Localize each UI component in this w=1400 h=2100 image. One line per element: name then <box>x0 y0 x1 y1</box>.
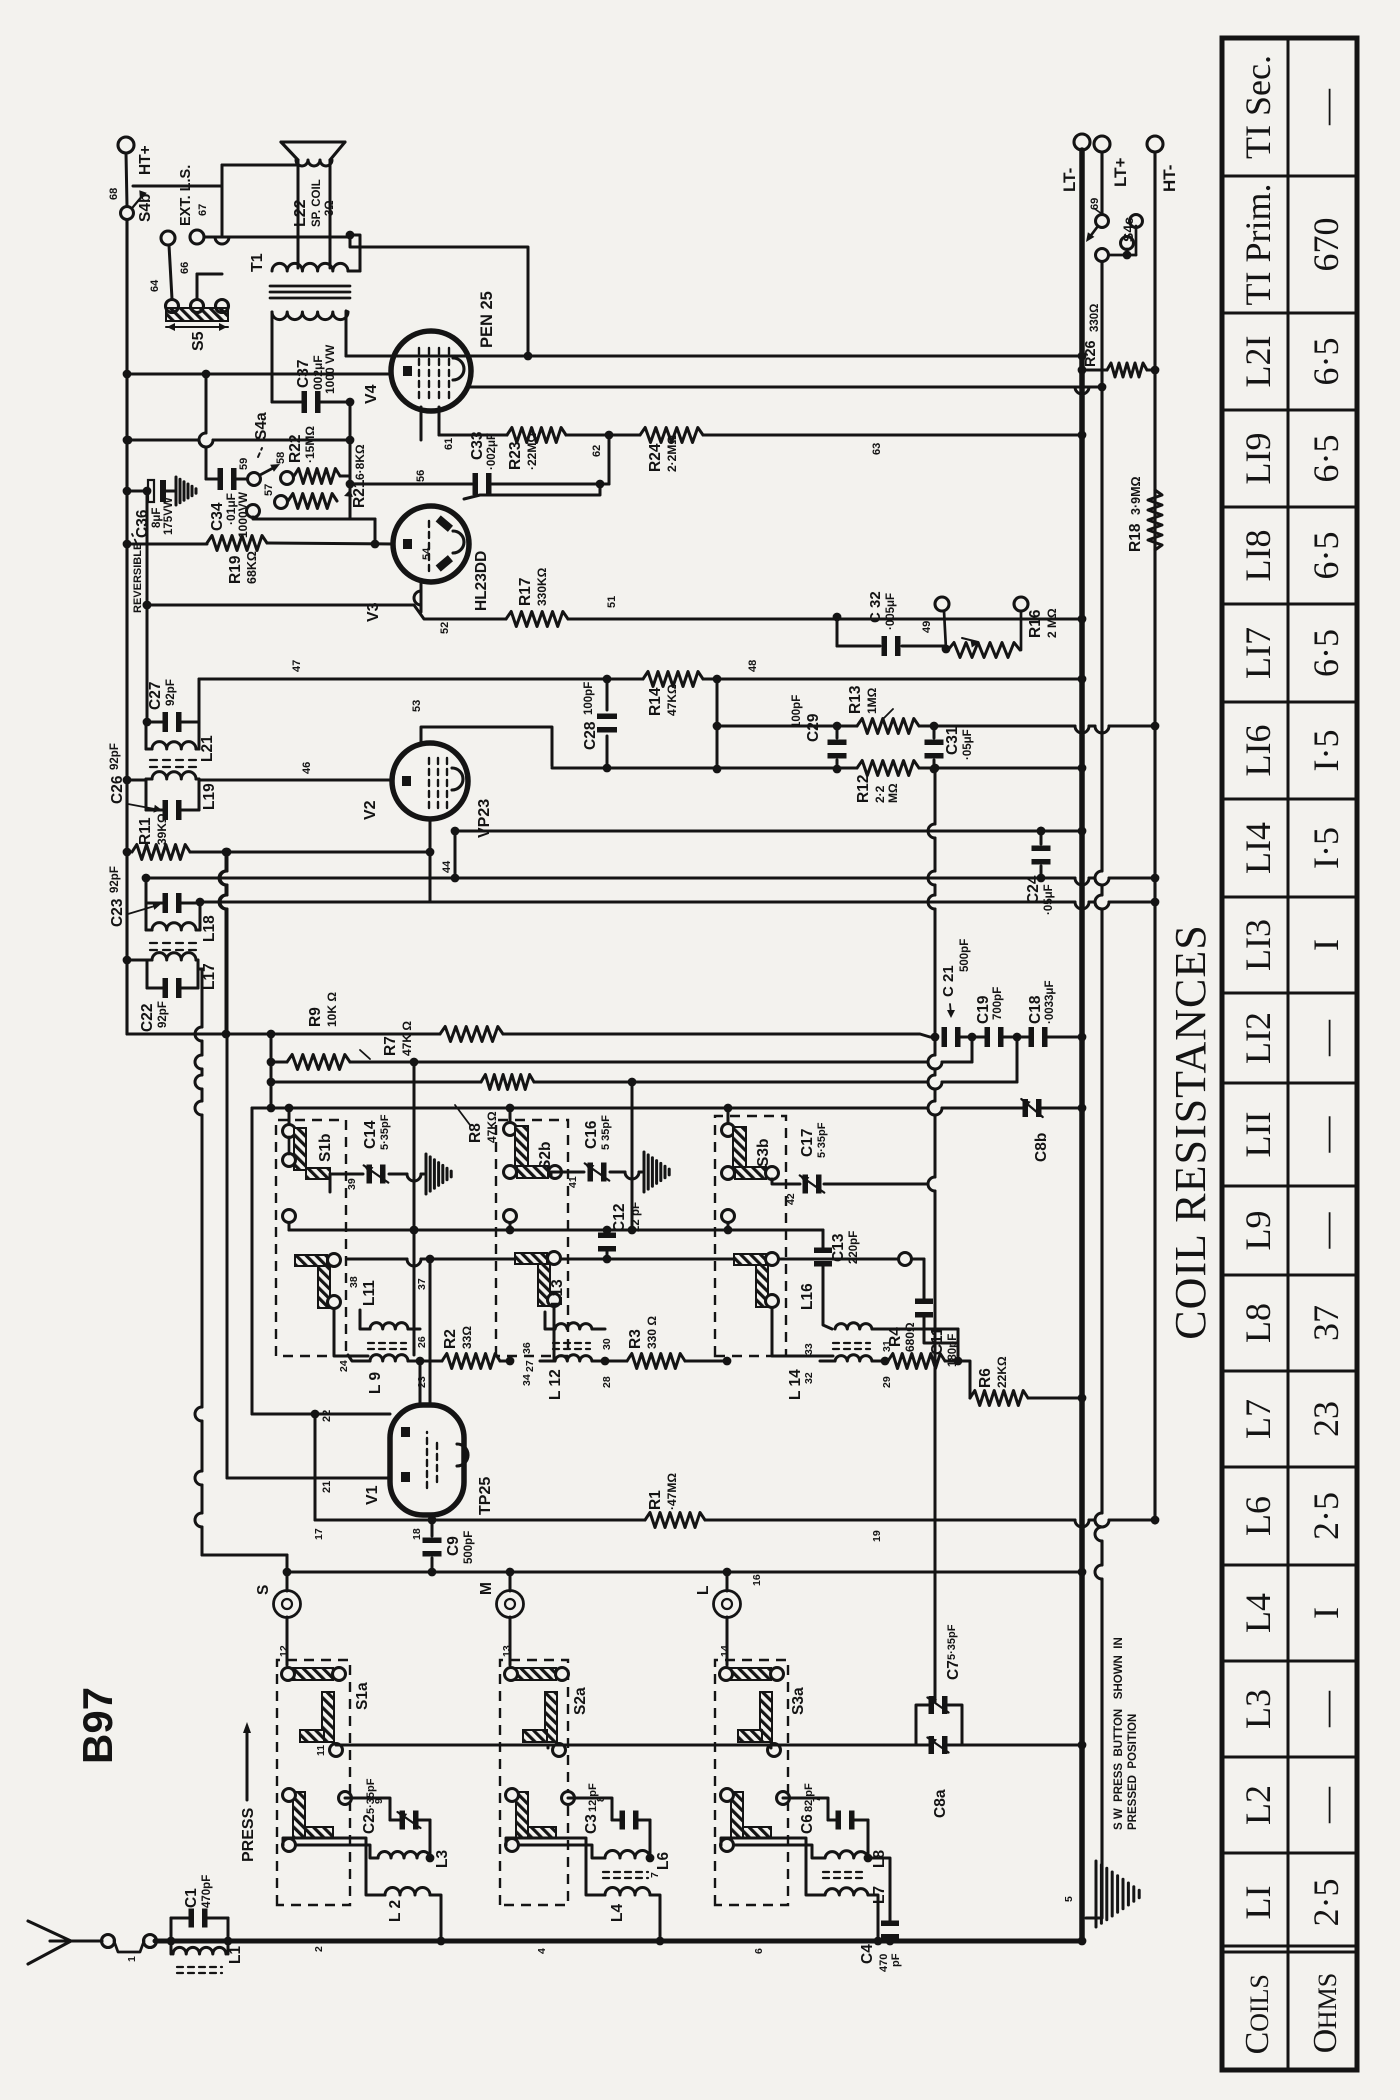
capacitor C21 500pF <box>942 1027 948 1047</box>
svg-text:L 12: L 12 <box>547 1369 564 1400</box>
svg-text:·005μF: ·005μF <box>885 593 897 630</box>
capacitor C6 82pF <box>828 1819 836 1822</box>
wire L4/L6 bottoms to rail <box>650 1895 660 1941</box>
coil L12 <box>555 1355 592 1361</box>
transformer core L4/L6 <box>603 1871 648 1873</box>
svg-text:330KΩ: 330KΩ <box>535 567 549 606</box>
wire 44-line top bar <box>145 878 148 930</box>
svg-text:C2: C2 <box>361 1814 378 1834</box>
svg-text:175VW: 175VW <box>163 497 175 535</box>
svg-text:HL23DD: HL23DD <box>473 551 490 611</box>
wire R13 row <box>717 725 857 728</box>
svg-text:C17: C17 <box>799 1129 816 1157</box>
svg-text:·002μF: ·002μF <box>486 433 498 470</box>
svg-text:3·9MΩ: 3·9MΩ <box>1129 476 1143 515</box>
svg-text:32: 32 <box>803 1372 815 1384</box>
valve V1 TP25 <box>390 1405 464 1515</box>
switch box S3b <box>715 1116 786 1356</box>
svg-text:V1: V1 <box>364 1485 381 1505</box>
svg-text:L19: L19 <box>201 783 218 810</box>
svg-text:30: 30 <box>601 1338 613 1350</box>
wire V3 diode 2 to C33 node <box>464 484 600 499</box>
svg-text:2·2MΩ: 2·2MΩ <box>665 435 679 472</box>
switch box S1b <box>276 1120 346 1356</box>
resistor R8 47Kohm <box>481 1075 534 1090</box>
wire T1 primary top to C37 <box>271 312 274 402</box>
valve V3 HL23DD <box>393 506 469 582</box>
svg-text:R3: R3 <box>627 1329 644 1349</box>
svg-text:2: 2 <box>313 1946 325 1952</box>
svg-text:10K Ω: 10K Ω <box>325 992 339 1027</box>
switch S1a contacts <box>293 1668 333 1680</box>
resistor R2 33ohm <box>420 1360 442 1363</box>
resistor R3 330ohm <box>605 1360 627 1363</box>
svg-text:8: 8 <box>595 1796 607 1802</box>
wire row4 top corner to V1 <box>251 1108 254 1414</box>
svg-text:6·5: 6·5 <box>1306 338 1346 386</box>
wire V4 screen stub <box>420 407 423 440</box>
svg-text:·05μF: ·05μF <box>962 729 974 760</box>
svg-text:HT+: HT+ <box>137 145 154 175</box>
svg-text:C22: C22 <box>139 1004 156 1032</box>
svg-text:48: 48 <box>747 660 759 672</box>
switch S3b contacts <box>722 1124 735 1137</box>
svg-text:54: 54 <box>421 547 433 560</box>
wire R12 row / anode row <box>552 767 857 770</box>
svg-text:L6: L6 <box>1238 1496 1278 1536</box>
wire R8 row <box>271 1081 481 1084</box>
svg-text:4: 4 <box>536 1948 548 1954</box>
svg-text:470: 470 <box>878 1954 890 1972</box>
terminal HT- <box>1147 136 1163 152</box>
wire C2/L3 bottom join <box>429 1820 432 1858</box>
resistor R21 6.8Kohm <box>288 494 337 509</box>
svg-text:S: S <box>255 1585 272 1595</box>
svg-text:1000 VW: 1000 VW <box>323 344 337 394</box>
capacitor C16 5-35pF trimmer <box>551 1172 584 1176</box>
wire S4b arm to speaker loop <box>160 185 222 188</box>
svg-text:33: 33 <box>803 1343 815 1355</box>
svg-text:100pF: 100pF <box>583 682 595 715</box>
svg-text:·05μF: ·05μF <box>1043 884 1055 915</box>
wire common bus branches <box>547 1745 550 1748</box>
svg-text:92pF: 92pF <box>165 679 177 706</box>
resistor R1 .47Mohm <box>645 1513 705 1528</box>
lamp L <box>726 1572 729 1591</box>
svg-text:LI3: LI3 <box>1238 919 1278 971</box>
svg-text:59: 59 <box>238 458 250 470</box>
svg-text:·22MΩ: ·22MΩ <box>525 433 539 470</box>
capacitor C37 .002uF <box>272 401 303 404</box>
svg-text:C8a: C8a <box>932 1789 949 1818</box>
svg-text:52: 52 <box>439 622 451 634</box>
valve V4 PEN25 <box>391 331 471 411</box>
svg-text:R12: R12 <box>855 775 872 803</box>
svg-text:6·5: 6·5 <box>1306 435 1346 483</box>
svg-text:24: 24 <box>338 1360 350 1372</box>
svg-text:53: 53 <box>411 700 423 712</box>
svg-text:R9: R9 <box>307 1007 324 1027</box>
svg-text:2·2: 2·2 <box>873 785 887 803</box>
svg-text:L18: L18 <box>201 915 218 942</box>
svg-text:58: 58 <box>275 452 287 464</box>
coil L21 <box>152 742 196 749</box>
svg-text:500pF: 500pF <box>959 939 971 972</box>
transformer T1 primary winding <box>272 312 348 320</box>
switch S4a contact D <box>247 505 260 518</box>
wire contact rail extension <box>779 1258 898 1261</box>
svg-text:47K Ω: 47K Ω <box>400 1021 414 1056</box>
switch box S2a <box>500 1660 568 1905</box>
capacitor C33 .002uF <box>608 435 611 484</box>
svg-text:C6: C6 <box>799 1814 816 1834</box>
wire L19/C26 loop <box>145 779 148 810</box>
wire LT+ rail <box>1086 1910 1102 1918</box>
svg-text:TI Prim.: TI Prim. <box>1238 184 1278 306</box>
svg-text:38: 38 <box>348 1276 360 1288</box>
wire y632 row <box>631 1116 634 1230</box>
wire lamp rail x528 <box>287 1571 1082 1574</box>
wire L21/C27 loop <box>145 722 148 749</box>
svg-text:34: 34 <box>521 1374 533 1386</box>
resistor R17 330Kohm <box>506 612 568 627</box>
svg-text:29: 29 <box>881 1376 893 1388</box>
wire V4 cathode line to LT+ <box>469 386 1102 389</box>
svg-text:I: I <box>1306 939 1346 951</box>
wire V2 grid stem <box>429 818 432 902</box>
svg-text:C1: C1 <box>183 1888 200 1908</box>
switch box S3a <box>715 1660 788 1905</box>
capacitor C29 100pF <box>836 726 839 738</box>
resistor R26 330ohm <box>1082 369 1107 372</box>
svg-text:5·35pF: 5·35pF <box>379 1114 391 1150</box>
svg-text:2·5: 2·5 <box>1306 1492 1346 1540</box>
svg-text:LT+: LT+ <box>1111 157 1130 187</box>
svg-text:pF: pF <box>890 1953 902 1967</box>
aerial <box>28 1921 71 1964</box>
wire lamp feed corner <box>202 1554 287 1557</box>
svg-text:—: — <box>1306 88 1346 126</box>
resistor R18 3.9Mohm <box>1148 490 1162 550</box>
svg-text:27: 27 <box>524 1360 536 1372</box>
capacitor C19 700pF <box>957 1036 988 1039</box>
svg-text:41: 41 <box>567 1176 579 1188</box>
switch S1b idle contact <box>283 1210 296 1223</box>
terminal LT- <box>1074 134 1090 150</box>
svg-text:220pF: 220pF <box>848 1231 860 1264</box>
svg-text:700pF: 700pF <box>992 987 1004 1020</box>
wire C1/L1 loop <box>170 1918 173 1954</box>
switch S4b and HT+ terminal <box>118 137 134 153</box>
svg-text:C9: C9 <box>445 1536 462 1556</box>
svg-text:L13: L13 <box>549 1279 566 1306</box>
lamp M <box>509 1572 512 1591</box>
svg-text:L 2: L 2 <box>387 1900 404 1922</box>
wire L16 leads <box>872 1328 885 1331</box>
resistor R12 2.2Mohm <box>857 761 919 776</box>
resistor R14 47Kohm <box>643 672 703 687</box>
svg-text:L9: L9 <box>1238 1211 1278 1251</box>
svg-text:22: 22 <box>321 1410 333 1422</box>
svg-text:6·8KΩ: 6·8KΩ <box>353 444 367 480</box>
svg-text:L7: L7 <box>1238 1399 1278 1439</box>
ground below C14 <box>425 1154 428 1194</box>
wire R7 row <box>271 1061 287 1064</box>
svg-text:LI: LI <box>1238 1886 1278 1920</box>
wire HT+ feed to V4 screen <box>127 439 199 442</box>
wire speaker loop <box>297 160 300 268</box>
resistor R11 39Kohm <box>132 845 190 860</box>
svg-text:PRESS: PRESS <box>240 1807 257 1862</box>
wire L2/L3 bottoms to rail <box>430 1895 441 1941</box>
resistor R9 10Kohm <box>440 1027 503 1042</box>
svg-text:23: 23 <box>1306 1401 1346 1437</box>
wire y414 switch row <box>413 1062 416 1355</box>
wire V2 anode <box>421 727 552 766</box>
svg-text:C14: C14 <box>362 1120 379 1149</box>
svg-text:TI Sec.: TI Sec. <box>1238 55 1278 159</box>
svg-text:68KΩ: 68KΩ <box>245 551 259 584</box>
svg-text:21: 21 <box>321 1481 333 1493</box>
svg-text:C24: C24 <box>1025 875 1042 904</box>
wire heater/AVC secondary rail <box>146 491 149 722</box>
svg-text:2 MΩ: 2 MΩ <box>1045 608 1059 638</box>
coil L16 <box>835 1323 872 1329</box>
svg-text:14: 14 <box>719 1645 731 1657</box>
svg-text:C12: C12 <box>611 1204 628 1232</box>
svg-text:S1b: S1b <box>317 1134 334 1162</box>
coil L7 <box>825 1888 868 1895</box>
coil L3 <box>378 1852 430 1859</box>
svg-text:·47MΩ: ·47MΩ <box>665 1473 679 1510</box>
capacitor C18 .0033uF <box>1000 1036 1032 1039</box>
svg-text:C 32: C 32 <box>867 591 884 623</box>
svg-text:O: O <box>1307 2029 1344 2054</box>
svg-text:R19: R19 <box>227 555 244 584</box>
coil L8 <box>825 1851 868 1858</box>
wire V1 grid2 <box>429 1259 432 1403</box>
svg-text:67: 67 <box>197 204 209 216</box>
wire L14 leads <box>820 1360 835 1363</box>
ground below C16 <box>643 1152 646 1192</box>
wire S1a arm link <box>335 1744 338 1745</box>
svg-text:S4b: S4b <box>137 194 154 222</box>
wire 21-line V1 electrode <box>226 909 229 1478</box>
svg-text:C8b: C8b <box>1033 1133 1050 1162</box>
switch box S1a <box>277 1660 350 1905</box>
wire L13 leads <box>545 1312 555 1329</box>
capacitor C7 5-35pF trimmer <box>916 1705 928 1745</box>
svg-text:I·5: I·5 <box>1306 730 1346 772</box>
wire C22 block down-feed <box>201 1527 204 1555</box>
capacitor C24 .05uF <box>1040 831 1043 844</box>
svg-text:C: C <box>1239 2032 1276 2055</box>
svg-text:92pF: 92pF <box>157 1001 169 1028</box>
svg-text:·15MΩ: ·15MΩ <box>303 426 317 463</box>
svg-text:8μF: 8μF <box>151 508 163 528</box>
svg-text:66: 66 <box>179 262 191 274</box>
wire trimmer feeder y935 <box>931 764 940 773</box>
svg-text:6·5: 6·5 <box>1306 532 1346 580</box>
wire C3/L6 bottom join <box>649 1820 652 1858</box>
svg-text:C3: C3 <box>583 1814 600 1834</box>
wire HT- rail <box>1153 152 1156 1523</box>
capacitor C31 .05uF <box>933 726 936 738</box>
svg-text:44: 44 <box>441 860 453 873</box>
resistor R22 .15Mohm <box>294 469 340 484</box>
capacitor C9 500pF <box>431 1515 434 1536</box>
svg-text:330Ω: 330Ω <box>1089 304 1101 332</box>
switch S2b lower contact bar <box>515 1253 547 1264</box>
switch S4a lower contact 57 <box>275 496 288 509</box>
pot terminal 2 <box>1014 597 1028 611</box>
svg-text:LII: LII <box>1238 1112 1278 1158</box>
wire HT+ AVC rail <box>125 213 128 1034</box>
capacitor C36 8uF electrolytic <box>127 490 148 493</box>
speaker coil L22 <box>296 160 332 166</box>
svg-text:L21: L21 <box>199 735 216 762</box>
svg-text:S4c: S4c <box>1120 217 1136 242</box>
capacitor C8b trimmer <box>1023 1099 1029 1117</box>
wire AGC line x1269 <box>455 830 1082 833</box>
svg-text:I·5: I·5 <box>1306 827 1346 869</box>
wire R9 row <box>127 1033 440 1036</box>
svg-text:SP. COIL: SP. COIL <box>311 179 323 227</box>
svg-text:V2: V2 <box>362 800 379 820</box>
coil L6 <box>605 1851 650 1859</box>
svg-text:S4a: S4a <box>253 412 270 440</box>
svg-text:LT-: LT- <box>1060 168 1079 192</box>
svg-text:56: 56 <box>415 470 427 482</box>
svg-text:L1: L1 <box>227 1946 244 1964</box>
capacitor C13 220pF <box>822 1230 825 1248</box>
wire L17/C22 loop <box>146 960 149 988</box>
svg-text:C4: C4 <box>859 1944 876 1964</box>
svg-text:L22: L22 <box>292 199 309 227</box>
resistor R24 2.2Mohm <box>640 428 703 443</box>
wire chassis/earth rail (aerial earth line) <box>155 1939 1082 1944</box>
wire S3a to C6/L8 <box>783 1798 828 1820</box>
svg-text:16: 16 <box>751 1574 763 1586</box>
svg-text:37: 37 <box>416 1278 428 1290</box>
svg-text:C11: C11 <box>929 1327 946 1355</box>
svg-text:28: 28 <box>601 1376 613 1388</box>
svg-text:5 35pF: 5 35pF <box>600 1115 612 1150</box>
wire L7/L8 bottoms to rail <box>868 1895 878 1941</box>
capacitor C12 22pF <box>606 1230 609 1234</box>
wire S1b top to row4 <box>288 1108 291 1124</box>
svg-text:L4: L4 <box>1238 1593 1278 1633</box>
svg-text:LI6: LI6 <box>1238 725 1278 777</box>
wire L3 top <box>297 1845 378 1858</box>
wire L18 top link / AVC return to HT- <box>200 901 430 904</box>
svg-text:S2a: S2a <box>572 1687 589 1715</box>
wire S2a to C3/L6 <box>568 1798 612 1820</box>
svg-text:1MΩ: 1MΩ <box>865 687 879 714</box>
svg-text:C31: C31 <box>944 726 961 755</box>
svg-text:C19: C19 <box>975 995 992 1024</box>
transformer core L14/L16 <box>833 1342 870 1344</box>
svg-text:330 Ω: 330 Ω <box>645 1316 659 1349</box>
svg-text:5·35pF: 5·35pF <box>365 1778 377 1814</box>
capacitor C17 5-35pF trimmer <box>772 1179 800 1184</box>
svg-text:470pF: 470pF <box>201 1875 213 1908</box>
svg-text:17: 17 <box>313 1528 325 1540</box>
svg-text:6: 6 <box>753 1948 765 1954</box>
svg-text:V4: V4 <box>363 384 380 404</box>
switch S1b contacts <box>283 1125 296 1138</box>
svg-text:64: 64 <box>149 279 161 292</box>
wire T1 primary bottom to V4 anode line <box>346 311 348 356</box>
svg-text:1: 1 <box>126 1956 138 1962</box>
svg-text:5·35pF: 5·35pF <box>946 1624 958 1660</box>
svg-text:500pF: 500pF <box>463 1531 475 1564</box>
coil L18 <box>152 923 196 930</box>
wire grid bias node <box>350 518 375 521</box>
switch S2b contacts <box>504 1123 517 1136</box>
svg-text:C33: C33 <box>469 431 486 460</box>
wire LT- thick bus <box>1079 150 1085 1941</box>
svg-text:R2: R2 <box>442 1329 459 1349</box>
svg-text:22 pF: 22 pF <box>630 1202 642 1232</box>
wire R2 to lamp rail <box>500 1360 510 1363</box>
svg-text:REVERSIBLE: REVERSIBLE <box>132 543 144 613</box>
wire L19 to AVC rail <box>127 779 146 782</box>
wire L11 leads <box>360 1310 370 1329</box>
svg-text:33Ω: 33Ω <box>460 1326 474 1349</box>
svg-text:L4: L4 <box>609 1904 626 1922</box>
svg-text:B97: B97 <box>74 1687 121 1764</box>
capacitor C23 92pF <box>146 902 163 905</box>
valve V2 VP23 <box>392 743 468 819</box>
svg-text:31: 31 <box>881 1340 893 1352</box>
svg-text:C7: C7 <box>945 1660 962 1680</box>
wire V3 cathode column R17 <box>147 604 407 607</box>
switch box S2b <box>496 1120 568 1356</box>
switch S3b idle contact <box>722 1210 735 1223</box>
coil L17 <box>152 953 196 960</box>
svg-text:R7: R7 <box>382 1036 399 1056</box>
wire aerial to L1 <box>156 1940 171 1943</box>
terminal EXT LS 2 <box>190 230 204 244</box>
wire ext-ls column <box>204 236 350 239</box>
svg-text:19: 19 <box>871 1530 883 1542</box>
svg-text:L2: L2 <box>1238 1785 1278 1825</box>
idle contact on rail <box>899 1253 912 1266</box>
switch S3b lower contact bar <box>734 1254 766 1265</box>
svg-text:R18: R18 <box>1127 523 1144 552</box>
resistor R4 680ohm <box>885 1360 888 1363</box>
wire V3 cathode <box>420 582 423 612</box>
svg-text:C27: C27 <box>147 682 164 710</box>
wire V4 grid2 stub <box>438 407 441 435</box>
svg-text:C26: C26 <box>109 775 126 804</box>
coil L1 <box>173 1947 226 1954</box>
svg-text:—: — <box>1306 1786 1346 1824</box>
capacitor C11 180pF <box>912 1258 924 1261</box>
svg-text:670: 670 <box>1306 218 1346 272</box>
svg-text:51: 51 <box>606 596 618 608</box>
wire R7 row tap to C19 <box>971 1037 974 1043</box>
coil L11 <box>370 1323 408 1329</box>
svg-text:7: 7 <box>649 1872 661 1878</box>
transformer T1 core <box>270 291 350 294</box>
ground main chassis <box>1095 1861 1098 1927</box>
wire V2 grid feed from L19 <box>199 779 392 782</box>
switch S4c <box>1096 215 1109 228</box>
svg-text:S3b: S3b <box>755 1139 772 1167</box>
svg-text:49: 49 <box>921 621 933 633</box>
